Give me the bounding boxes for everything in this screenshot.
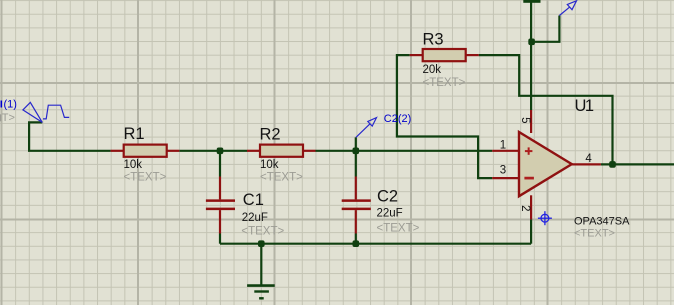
junction C2 bottom (353, 240, 360, 247)
capacitor C2 (342, 177, 371, 234)
svg-text:C2: C2 (377, 188, 398, 206)
svg-text:1: 1 (500, 140, 506, 152)
svg-text:<TEXT>: <TEXT> (124, 172, 167, 184)
svg-text:3: 3 (500, 165, 506, 177)
op-amp U1 (492, 110, 601, 219)
pin 1 stub (492, 150, 519, 152)
svg-text:<TEXT>: <TEXT> (423, 77, 466, 89)
svg-text:<TEXT>: <TEXT> (260, 172, 303, 184)
pin 3 stub (492, 177, 519, 179)
wire C1 top (219, 151, 221, 177)
minus symbol (524, 177, 534, 180)
svg-text:10k: 10k (260, 159, 279, 171)
wire R2 to pin1 (316, 150, 493, 152)
power bar (523, 0, 540, 3)
svg-text:<TEXT>: <TEXT> (241, 226, 284, 238)
wire C2 top (355, 151, 357, 177)
wire C2 bottom (355, 234, 357, 244)
capacitor C1 (206, 177, 235, 234)
blue origin crosshair (538, 211, 552, 225)
junction ground (258, 240, 265, 247)
resistor R2 (247, 145, 316, 157)
wire label stub node C2(2) (355, 137, 357, 151)
svg-text:(1): (1) (4, 99, 17, 111)
svg-text:R2: R2 (260, 126, 281, 144)
junction power (528, 39, 535, 46)
junction output (609, 161, 616, 168)
junction C1 top (217, 148, 224, 155)
wire power vertical (530, 2, 532, 110)
wire R3 right to output node (479, 55, 613, 164)
pin 5 stub (530, 110, 532, 133)
svg-text:R1: R1 (124, 125, 145, 143)
pin 4 stub (572, 163, 601, 165)
svg-text:<TEXT>: <TEXT> (574, 228, 615, 240)
svg-text:20k: 20k (423, 64, 442, 76)
plus symbol (525, 147, 533, 154)
svg-text:2: 2 (519, 205, 531, 211)
wire R1 to R2 (179, 150, 247, 152)
blue node arrow power (559, 1, 576, 16)
svg-text:<TEXT>: <TEXT> (377, 223, 420, 235)
svg-text:10k: 10k (124, 159, 143, 171)
wire bottom rail (220, 243, 531, 245)
resistor R1 (111, 145, 180, 157)
junction C2 top (353, 148, 360, 155)
blue input waveform (43, 105, 69, 119)
wire input stub (29, 122, 111, 150)
wire C1 bottom (219, 234, 221, 244)
svg-text:C1: C1 (243, 191, 264, 209)
wire R3 left to pin3 (397, 55, 492, 178)
svg-text:T>: T> (2, 112, 15, 124)
wire ground stub (260, 244, 262, 286)
blue node arrow C2(2) (356, 118, 377, 138)
svg-text:5: 5 (519, 117, 531, 123)
pin 2 stub (530, 195, 532, 219)
svg-text:R3: R3 (423, 31, 444, 49)
svg-text:22uF: 22uF (242, 212, 268, 224)
wire power node label stub (531, 16, 559, 42)
svg-text:U1: U1 (575, 97, 594, 115)
resistor R3 (410, 49, 479, 61)
svg-text:OPA347SA: OPA347SA (574, 216, 630, 228)
ground (247, 286, 275, 299)
svg-text:22uF: 22uF (377, 208, 403, 220)
wire pin2 to bottom rail (530, 219, 532, 243)
svg-text:4: 4 (585, 153, 592, 165)
wire output (601, 163, 674, 165)
blue input arrow (23, 102, 42, 122)
svg-text:C2(2): C2(2) (384, 113, 412, 125)
